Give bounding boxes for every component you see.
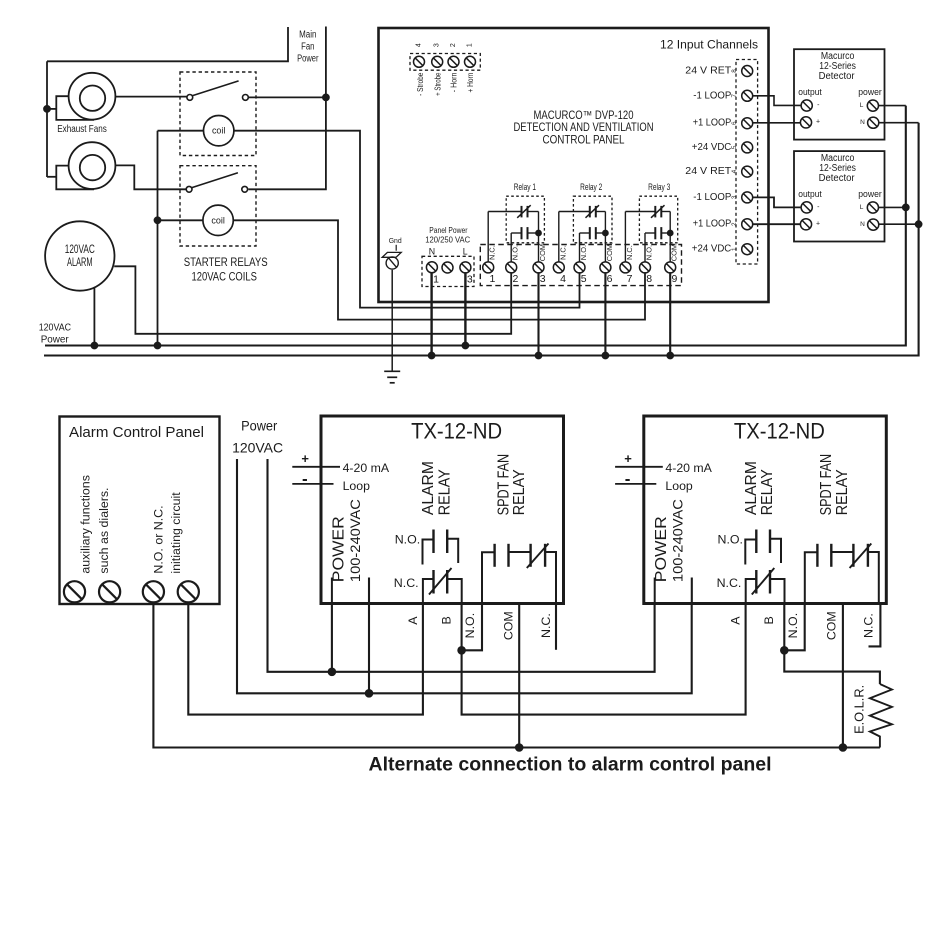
svg-text:MACURCO™ DVP-120: MACURCO™ DVP-120 [534,110,634,122]
svg-text:RELAY: RELAY [834,469,851,515]
label: auxiliary functions [79,475,93,573]
label: +1 LOOP (ch 2) [693,219,732,230]
terminal screw channel 1 [742,244,753,255]
pin number 3 (panel power) [467,274,473,286]
label: TX1 terminal N.O. [463,613,477,638]
svg-text:COM: COM [670,244,679,261]
label: N.O. (terminal 5) [579,245,588,260]
label: L terminal [463,247,468,257]
terminal screw detector 1 L [867,100,878,111]
wire: TX2 N.O. jumper to B [786,604,805,651]
svg-text:+: + [816,119,820,126]
svg-text:CONTROL PANEL: CONTROL PANEL [543,135,626,147]
wire: alarm to relay1 N.O. terminal 2 [114,266,511,334]
terminal screw detector 2 output + [800,219,811,230]
svg-text:TX-12-ND: TX-12-ND [411,419,502,444]
junction: relay2 COM on N bus [602,352,609,359]
label: +1 LOOP (ch 6) [693,118,732,129]
label: 100-240VAC 2 [671,499,686,582]
label: detector 1 power [858,87,882,98]
label: N.O. 1 [395,533,420,547]
label: + Horn [466,73,475,93]
label: 4-20 mA 2 [665,461,712,475]
terminal screw 5 (relay strip) [574,262,585,273]
terminal screw detector 2 L [867,202,878,213]
terminal screw ACP 1 [64,581,85,602]
label: N.C. 1 [394,576,419,590]
label: TX-12-ND title 2 [734,419,825,444]
terminal: 4-20mA + lead 1 [292,451,340,467]
wire: detector2 N to N bus [879,223,919,225]
terminal strip: panel power (dashed) [422,256,474,286]
box: Relay 1 (dashed) [506,196,544,243]
svg-text:output: output [798,87,822,98]
svg-text:ALARM: ALARM [67,257,93,269]
svg-text:L: L [860,102,864,109]
pin number 9 (relay strip) [671,273,677,285]
svg-text:4-20 mA: 4-20 mA [665,461,712,475]
svg-text:3: 3 [731,195,738,199]
wire: fan1 left lead [47,108,56,110]
ground: earth symbol [384,371,400,383]
terminal screw strobe/horn 4 [465,56,476,67]
panel: MACURCO DVP-120 enclosure [379,28,769,302]
pin number 2 (relay strip) [512,273,518,285]
svg-text:-: - [817,102,820,109]
terminal screw detector 2 output - [801,202,812,213]
wire: detector1 N to N bus [879,122,919,124]
panel: TX-12-ND unit 1 [321,416,564,604]
junction: panel N on bus [428,352,435,359]
svg-text:+: + [301,451,309,466]
svg-text:N.O.: N.O. [718,533,743,547]
terminal screw panel power N [426,262,437,273]
svg-text:POWER: POWER [330,516,347,582]
terminal strip: relay outputs 1-9 (dashed) [480,245,681,286]
wire: Relay 2 NC lead to screw [558,212,560,263]
label: detector 1 L [860,102,864,109]
contact: alarm relay N.C. 1 [423,568,462,604]
svg-text:POWER: POWER [653,516,670,582]
svg-text:N.C.: N.C. [625,245,634,260]
terminal screw channel 4 [742,166,753,177]
contact: Relay 2 N.O. [580,227,606,239]
svg-text:STARTER RELAYS: STARTER RELAYS [184,255,268,269]
wire: relay3 COM (9) to N bus [669,272,671,355]
wire: 120VAC power line 1 to power bus C2 [237,459,692,693]
bus: 120VAC L line [45,106,906,346]
svg-text:9: 9 [671,273,677,285]
svg-text:L: L [860,204,864,211]
box: Relay 3 (dashed) [639,196,677,243]
svg-text:N.C.: N.C. [558,245,567,260]
terminal screw 6 (relay strip) [600,262,611,273]
label: TX2 terminal COM [825,611,839,640]
wire: coil1 left lead to L bus [158,131,204,346]
wire: Relay 1 NO lead to screw [510,233,512,262]
svg-text:COM: COM [538,244,547,261]
box: Relay 2 (dashed) [573,196,612,243]
svg-text:auxiliary functions: auxiliary functions [79,475,93,573]
svg-text:6: 6 [607,273,613,285]
svg-text:8: 8 [731,69,738,73]
label: 24 V RET (ch 8) [685,66,731,77]
terminal screw detector 1 output + [800,117,811,128]
junction: Relay 1 common [536,230,542,236]
wire: TX1 power lead 2 [368,604,370,694]
wire: TX2 B terminal to EOLR top [784,604,880,685]
junction: coil2 tap on coil feed [154,217,161,224]
coil: starter relay 2 coil [203,205,233,235]
terminal screw 4 (relay strip) [553,262,564,273]
wire: ACP initiating terminal to TX1 A [188,603,423,715]
label: - Horn [450,73,459,93]
label: +24 VDC (ch 5) [692,142,732,153]
junction: Relay 3 common [667,230,673,236]
svg-text:N.C.: N.C. [539,613,553,638]
label: panel title [514,110,654,147]
wire: relay1 COM (3) to N bus [537,272,539,355]
svg-text:N: N [429,247,435,257]
label: caption [369,755,772,776]
pin number 6 (channel strip) [731,121,738,125]
svg-text:N.C.: N.C. [862,613,876,638]
svg-text:Main: Main [299,30,316,41]
label: N.O. or N.C. [152,505,166,573]
label: Alarm Control Panel [69,425,204,441]
junction: TX1 COM on EOLR bus [515,744,523,752]
junction: TX1 power1 on bus C1 [328,668,336,676]
contact: Relay 3 N.C. [625,205,670,233]
svg-text:A: A [406,616,420,625]
terminal strip: 12 input channels (dashed) [736,60,758,265]
terminal screw 8 (relay strip) [640,262,651,273]
wire: ground lead [391,270,393,372]
contact: Relay 3 N.O. [645,227,670,239]
label: detector 1 output [798,87,822,98]
junction: TX2 COM on EOLR bus [839,744,847,752]
wire: switch1 to fan power node [248,96,326,98]
svg-text:3: 3 [540,273,546,285]
svg-text:+1 LOOP: +1 LOOP [693,219,732,230]
label: initiating circuit [169,492,183,574]
svg-text:4: 4 [560,273,566,285]
svg-text:4: 4 [731,169,738,173]
terminal screw ACP 2 [99,581,120,602]
svg-text:TX-12-ND: TX-12-ND [734,419,825,444]
wire: coil2 left lead [158,219,203,221]
wire: TX1 N.O. jumper to B [463,604,482,651]
svg-text:COM: COM [502,611,516,640]
svg-text:2: 2 [512,273,518,285]
wire: Relay 3 NC lead to screw [624,212,626,263]
pin number 8 (channel strip) [731,69,738,73]
pin number 5 (relay strip) [581,273,587,285]
label: SPDT FAN RELAY 2 [818,454,851,515]
terminal: 4-20mA + lead 2 [615,451,663,467]
label: Power 120VAC [232,417,283,455]
svg-text:120VAC: 120VAC [232,439,283,455]
label: POWER 1 [330,516,347,582]
label: TX1 terminal A [406,616,420,625]
wire: Relay 2 NO lead to screw [579,233,581,262]
label: +24 VDC (ch 1) [692,244,732,255]
wire: 120VAC power line 2 to power bus C1 [268,459,655,672]
svg-text:Power: Power [297,54,319,65]
terminal screw channel 6 [742,118,753,129]
svg-text:N.C.: N.C. [717,576,742,590]
terminal screw ACP 4 [178,581,199,602]
wire: detector1 L to L bus [879,105,906,107]
svg-text:120VAC: 120VAC [65,244,95,256]
wire: TX2 COM to EOLR bus [842,604,844,748]
svg-text:+: + [816,221,820,228]
label: 100-240VAC 1 [348,499,363,582]
label: TX2 terminal A [729,616,743,625]
wire: Relay 3 COM lead to screw [669,233,671,262]
wire: main fan power left stub [47,27,288,61]
svg-text:N.O.: N.O. [579,245,588,260]
pin number 6 (relay strip) [607,273,613,285]
svg-text:+ Strobe: + Strobe [434,73,443,96]
svg-text:-: - [625,469,631,488]
label: 4-20 mA 1 [343,461,390,475]
label: ALARM RELAY 1 [420,461,453,515]
label: TX2 terminal B [762,616,776,624]
wire: TX1 COM to EOLR bus [518,604,520,748]
label: TX2 terminal N.O. [786,613,800,638]
label: detector 2 output [798,189,822,200]
svg-text:power: power [858,189,882,200]
switch: starter relay 2 contact [186,173,247,192]
label: POWER 2 [653,516,670,582]
label: 120VAC Power [39,323,72,346]
svg-text:N.C.: N.C. [488,245,497,260]
label: 24 V RET (ch 4) [685,166,731,177]
svg-text:- Strobe: - Strobe [416,73,425,96]
wire: Relay 3 NO lead to screw [644,233,646,262]
svg-text:-1 LOOP: -1 LOOP [693,90,731,101]
svg-text:COM: COM [605,244,614,261]
label: N.C. (terminal 1) [488,245,497,260]
bus: 120VAC N line [44,123,919,356]
pin number 4 (relay strip) [560,273,566,285]
terminal screw panel power L [460,262,471,273]
wire: ACP initiating terminal to EOLR bus [153,603,880,748]
label: detector 1 N [860,119,865,126]
label: Relay 1 [514,182,536,193]
svg-text:Detector: Detector [819,71,856,82]
pin number 5 (channel strip) [731,145,738,149]
wire: alarm to L bus [93,287,95,345]
svg-text:Power: Power [41,334,70,345]
wire: TX2 power pin stubs [655,578,692,604]
junction: alarm on L bus [91,342,98,349]
label: Loop 2 [665,479,693,493]
terminal screw detector 1 output - [801,100,812,111]
label: TX2 terminal N.C. [862,613,876,638]
label: TX1 terminal N.C. [539,613,553,638]
label: detector 2 L [860,204,864,211]
junction: fan1 tap [44,106,51,113]
label: COM (terminal 3) [538,244,547,261]
svg-text:A: A [729,616,743,625]
junction: relay1 COM on N bus [535,352,542,359]
label: TX-12-ND title 1 [411,419,502,444]
svg-text:100-240VAC: 100-240VAC [671,499,686,582]
junction: panel L on bus [462,342,469,349]
svg-text:7: 7 [731,94,738,98]
label: starter relays caption [184,255,268,284]
contact: alarm relay N.O. 2 [745,530,781,565]
wire: ch2 +1 LOOP to detector2 output + [753,223,801,225]
label: detector 2 N [860,221,865,228]
svg-text:DETECTION AND VENTILATION: DETECTION AND VENTILATION [514,122,654,134]
svg-text:-1 LOOP: -1 LOOP [693,192,731,203]
svg-text:Loop: Loop [343,479,371,493]
contact: SPDT fan relay 2 [805,544,879,604]
svg-text:COM: COM [825,611,839,640]
terminal screw channel 2 [742,219,753,230]
pin number 2 (strobe/horn strip) [450,43,457,47]
svg-text:N.O. or N.C.: N.O. or N.C. [152,505,166,573]
resistor: E.O.L.R. end of line resistor [870,684,892,748]
svg-text:+24 VDC: +24 VDC [692,142,732,153]
wire: exhaust fan supply drop [46,61,48,177]
label: TX1 terminal COM [502,611,516,640]
terminal screw channel 5 [742,142,753,153]
svg-text:+24 VDC: +24 VDC [692,244,732,255]
svg-text:L: L [463,247,468,257]
pin number 1 (strobe/horn strip) [467,43,474,47]
pin number 3 (strobe/horn strip) [434,43,441,47]
pin number 4 (strobe/horn strip) [416,43,423,47]
svg-text:4: 4 [416,43,423,47]
svg-text:6: 6 [731,121,738,125]
label: SPDT FAN RELAY 1 [495,454,528,515]
terminal screw 9 (relay strip) [665,262,676,273]
junction: relay3 COM on N bus [667,352,674,359]
svg-text:- Horn: - Horn [450,73,459,93]
svg-text:N: N [860,221,865,228]
terminal screw strobe/horn 2 [432,56,443,67]
terminal: loop - lead 2 [615,469,656,488]
svg-text:+1 LOOP: +1 LOOP [693,118,732,129]
wire: ch6 +1 LOOP to detector1 output + [753,122,801,124]
junction: TX1 power2 on bus C2 [365,690,373,698]
svg-text:ALARM: ALARM [420,461,437,515]
svg-text:+: + [624,451,632,466]
svg-text:3: 3 [434,43,441,47]
svg-text:8: 8 [646,273,652,285]
svg-text:N.O.: N.O. [463,613,477,638]
svg-text:N.C.: N.C. [394,576,419,590]
label: ALARM RELAY 2 [743,461,776,515]
label: Loop 1 [343,479,371,493]
pin number 2 (channel strip) [731,222,738,226]
svg-text:coil: coil [211,215,225,225]
box: starter relay 2 (dashed) [180,166,256,246]
svg-text:Fan: Fan [301,42,314,53]
svg-text:5: 5 [581,273,587,285]
label: - Strobe [416,73,425,96]
svg-text:N: N [860,119,865,126]
wire: ch7 -1 LOOP to detector1 output - [753,96,801,106]
svg-text:24 V RET: 24 V RET [685,66,731,77]
motor: exhaust fan 1 (blower symbol) [56,73,115,120]
terminal screw ACP 3 [143,581,164,602]
svg-text:Gnd: Gnd [389,236,402,245]
wire: ch3 -1 LOOP to detector2 output - [753,197,801,207]
terminal screw detector 1 N [868,117,879,128]
junction: detector2 N on bus [915,221,922,228]
wire: panel power N to N bus [430,272,432,355]
svg-text:12 Input Channels: 12 Input Channels [660,38,758,52]
junction: TX2 N.O. to B [781,647,789,655]
pin number 4 (channel strip) [731,169,738,173]
svg-text:Detector: Detector [819,173,856,184]
pin number 3 (relay strip) [540,273,546,285]
panel: TX-12-ND unit 2 [644,416,887,604]
svg-text:+ Horn: + Horn [466,73,475,93]
label: 12 Input Channels [660,38,758,52]
label: TX1 terminal B [439,616,453,624]
terminal screw 3 (relay strip) [533,262,544,273]
svg-text:B: B [762,616,776,624]
svg-text:120/250 VAC: 120/250 VAC [425,235,470,245]
wire: TX2 N.C. stub [869,604,881,647]
pin number 8 (relay strip) [646,273,652,285]
label: such as dialers. [97,488,111,574]
label: Relay 2 [580,182,602,193]
wire: TX1 B terminal down to TX2 A [462,604,746,715]
junction: switch1 to fan power [323,94,330,101]
coil: starter relay 1 coil [204,116,234,146]
svg-text:Relay 1: Relay 1 [514,182,536,193]
svg-text:Exhaust Fans: Exhaust Fans [57,124,107,135]
terminal screw strobe/horn 1 [414,56,425,67]
label: + Strobe [434,73,443,96]
terminal strip: strobe/horn (dashed) [410,54,480,71]
svg-text:1: 1 [433,274,439,286]
svg-text:1: 1 [489,273,495,285]
contact: Relay 1 N.O. [511,227,538,239]
svg-text:power: power [858,87,882,98]
svg-text:7: 7 [627,273,633,285]
svg-text:-: - [302,469,308,488]
wire: relay2 COM (6) to N bus [604,272,606,355]
motor: exhaust fan 2 (blower symbol) [56,142,115,189]
label: N.O. (terminal 8) [645,245,654,260]
svg-text:-: - [817,204,820,211]
label: N.O. 2 [718,533,743,547]
wire: coil2 to relay3 N.O. terminal 8 [233,220,645,319]
wire: main fan power feed down to starter switches [248,27,326,190]
junction: coil feed on L bus [154,342,161,349]
label: detector 2 power [858,189,882,200]
svg-text:1: 1 [731,247,738,251]
svg-text:2: 2 [450,43,457,47]
label: detector 1 output polarity [816,102,820,126]
terminal: loop - lead 1 [292,469,333,488]
contact: Relay 1 N.C. [488,205,538,233]
wire: Relay 2 COM lead to screw [604,233,606,262]
label: E.O.L.R. [851,685,866,734]
junction: Relay 2 common [603,230,609,236]
svg-text:Alternate connection to alarm: Alternate connection to alarm control pa… [369,755,772,776]
svg-text:Relay 2: Relay 2 [580,182,602,193]
svg-text:initiating circuit: initiating circuit [169,492,183,574]
